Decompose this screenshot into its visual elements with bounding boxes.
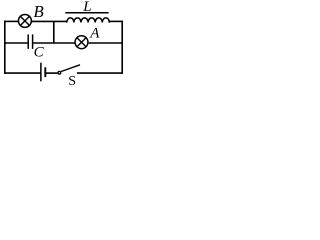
inductor L core line bbox=[65, 12, 108, 14]
wire middle-left segment (left edge to capacitor) bbox=[5, 42, 28, 44]
switch S blade bbox=[61, 65, 80, 72]
svg-text:L: L bbox=[82, 0, 91, 15]
inductor L coil bbox=[67, 18, 110, 23]
wire top-left segment bbox=[4, 20, 18, 22]
switch S pivot bbox=[58, 71, 61, 74]
wire right edge bbox=[121, 21, 123, 74]
lamp B bbox=[18, 14, 31, 27]
lamp A bbox=[75, 36, 88, 49]
wire top-right segment (coil to right edge) bbox=[109, 20, 123, 22]
wire switch to right edge bbox=[77, 72, 122, 74]
capacitor C bbox=[28, 34, 32, 49]
wire left edge bbox=[4, 21, 6, 74]
battery cell: short plate bbox=[44, 67, 46, 77]
wire bottom-left segment (left edge to battery) bbox=[5, 72, 41, 74]
svg-text:S: S bbox=[68, 74, 76, 89]
svg-text:B: B bbox=[33, 2, 44, 21]
wire battery to switch bbox=[45, 72, 58, 74]
wire middle-center segment (capacitor to lamp A) bbox=[33, 42, 74, 44]
wire middle-branch junction link bbox=[53, 21, 55, 43]
svg-text:C: C bbox=[34, 45, 45, 61]
battery cell: long plate bbox=[40, 63, 42, 82]
svg-text:A: A bbox=[89, 25, 100, 41]
wire middle-right segment (lamp A to right edge) bbox=[89, 42, 123, 44]
wire top-middle segment (lamp B to junction to coil) bbox=[32, 20, 67, 22]
